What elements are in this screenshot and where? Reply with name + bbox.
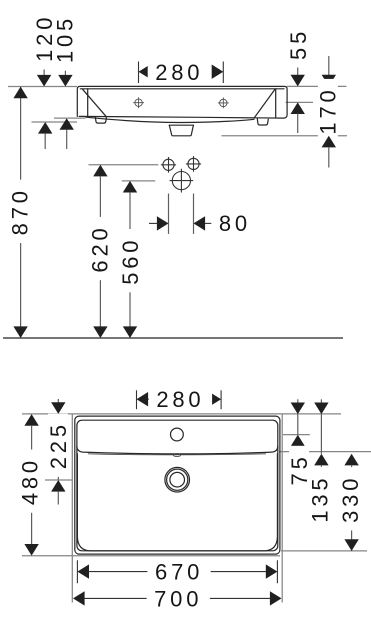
svg-text:135: 135	[308, 475, 333, 523]
svg-text:280: 280	[156, 387, 204, 412]
svg-text:560: 560	[118, 237, 143, 285]
svg-text:330: 330	[338, 475, 363, 523]
svg-text:480: 480	[18, 457, 43, 505]
svg-text:620: 620	[87, 224, 112, 272]
svg-text:80: 80	[219, 211, 251, 236]
svg-text:55: 55	[286, 28, 311, 60]
svg-text:870: 870	[8, 187, 33, 235]
svg-text:105: 105	[53, 15, 78, 63]
svg-text:670: 670	[155, 560, 203, 585]
svg-text:225: 225	[46, 421, 71, 469]
svg-text:280: 280	[155, 60, 203, 85]
svg-text:700: 700	[154, 587, 202, 612]
svg-text:170: 170	[316, 86, 341, 134]
